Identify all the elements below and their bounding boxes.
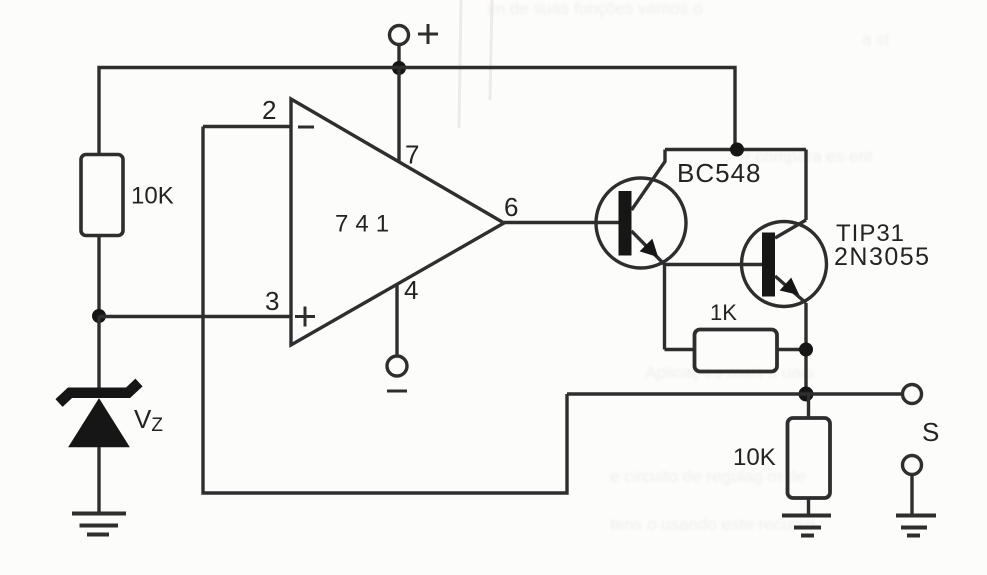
wire op-amp output pin 6 (504, 221, 619, 224)
svg-text:1K: 1K (710, 300, 737, 325)
wire terminal to top rail (397, 45, 400, 68)
svg-text:a st: a st (862, 30, 890, 49)
ground (zener) (72, 514, 126, 535)
transistor Q1 collector (632, 150, 666, 211)
wire resistor to node A (97, 236, 100, 317)
svg-text:e circuito de regulag m de: e circuito de regulag m de (610, 467, 806, 486)
junction dot collector rail (730, 143, 744, 157)
transistor Q1 BC548 circle (596, 178, 686, 268)
svg-text:S: S (922, 417, 939, 447)
wire to resistor 1K (665, 348, 695, 351)
wire BC548 emitter down to 1K (663, 265, 666, 350)
wire BC548 emitter to TIP31 base (665, 263, 763, 266)
wire pin 4 negative supply (395, 284, 398, 356)
svg-text:2N3055: 2N3055 (834, 243, 931, 271)
terminal S return (903, 456, 922, 475)
wire output node to 10K (807, 394, 810, 418)
main schematic group (59, 24, 936, 536)
wire output node to terminal S (567, 392, 903, 395)
terminal pin 4 minus (387, 356, 407, 376)
svg-text:3: 3 (265, 286, 279, 316)
plus sign inside op-amp (295, 307, 315, 327)
svg-text:6: 6 (504, 192, 518, 222)
transistor Q2 collector (775, 220, 806, 238)
wire top rail (99, 68, 735, 156)
wire 1K to emitter node (776, 348, 806, 351)
terminal + (positive supply) (390, 26, 409, 45)
junction dot node A (92, 309, 106, 323)
svg-text:10K: 10K (733, 444, 776, 471)
svg-text:2: 2 (262, 95, 276, 125)
wire node A to zener (97, 316, 100, 390)
transistor Q2 emitter arrow (781, 279, 798, 294)
terminal S output (903, 385, 922, 404)
zener diode Vz cathode bar (59, 383, 139, 404)
op-amp U1 741 triangle (291, 99, 504, 345)
wire node A to op-amp + input (99, 315, 291, 318)
wire 10K to ground (807, 498, 810, 516)
transistor Q1 base bar (619, 191, 632, 256)
label minus under terminal (387, 390, 407, 393)
scan gutter shadow streaks (459, 0, 492, 128)
wire rail down to TIP31 collector (804, 150, 807, 221)
junction dot top rail (392, 61, 406, 75)
resistor R1 10K (81, 155, 123, 236)
feedback wire output node to pin 2 (203, 127, 567, 494)
wire zener to ground (97, 447, 100, 514)
svg-text:7: 7 (405, 140, 419, 170)
minus sign inside op-amp (298, 126, 314, 129)
junction dot output node (799, 387, 814, 402)
scan bleed-through faint text top right (487, 0, 890, 534)
label + (418, 24, 438, 44)
ground (10K) (782, 516, 831, 536)
zener diode Vz anode triangle (70, 400, 129, 447)
wire return terminal to ground (910, 475, 913, 516)
wire TIP31 emitter down (804, 303, 807, 394)
resistor R3 10K (788, 418, 831, 498)
svg-text:im de suas funções vamos o: im de suas funções vamos o (487, 0, 702, 18)
wire pin 2 inverting input (203, 125, 291, 128)
transistor Q1 emitter (632, 231, 665, 265)
svg-text:tens o usando este recurso: tens o usando este recurso (610, 515, 815, 534)
wire BC548 collector rail (665, 148, 806, 151)
svg-text:BC548: BC548 (677, 158, 762, 188)
transistor Q2 TIP31 circle (742, 222, 827, 307)
resistor R2 1K (695, 330, 778, 372)
wire pin 7 supply (397, 68, 400, 161)
junction dot 1K emitter node (799, 343, 813, 357)
transistor Q1 emitter arrow (641, 240, 657, 256)
svg-text:741: 741 (335, 211, 396, 238)
ground (return terminal) (896, 516, 936, 536)
svg-text:10K: 10K (131, 183, 174, 210)
svg-text:4: 4 (404, 275, 418, 305)
transistor Q2 base bar (762, 233, 775, 297)
transistor Q2 emitter (775, 276, 806, 303)
